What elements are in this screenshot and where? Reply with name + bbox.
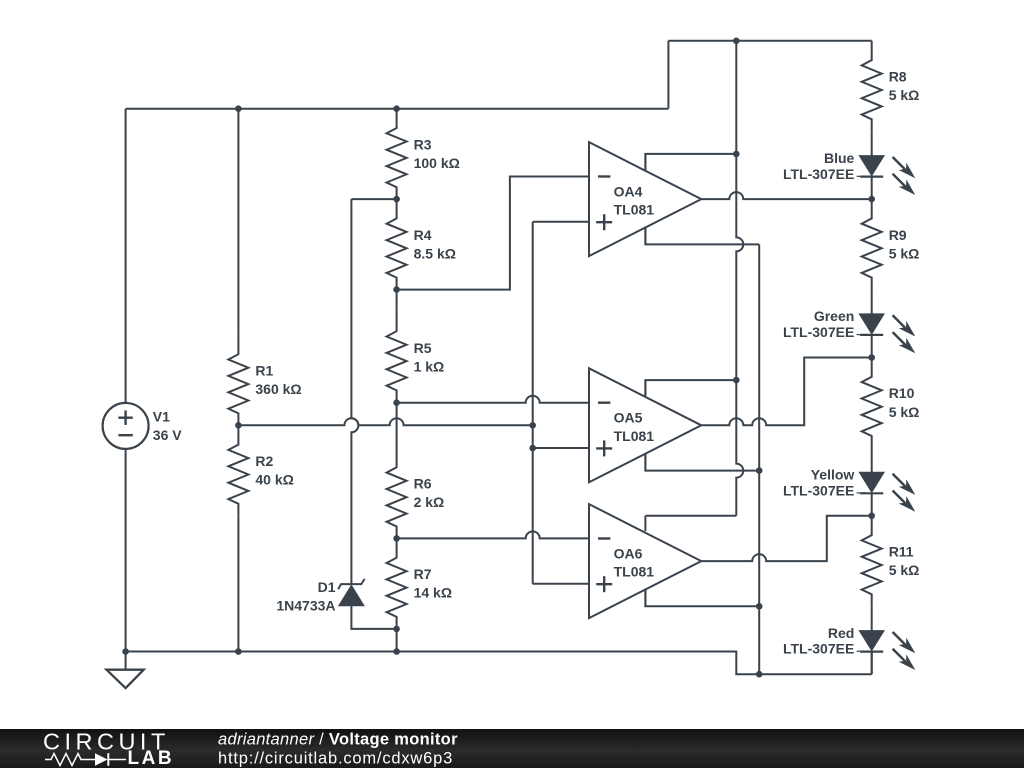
wire OA4 V- pin to negative rail	[645, 227, 759, 244]
node R3-R4 / D1 branch	[393, 196, 400, 203]
svg-text:R2: R2	[255, 453, 273, 469]
wire V+ rail to OA6 V+ pin	[645, 515, 736, 517]
svg-text:R5: R5	[414, 340, 432, 356]
svg-text:5 kΩ: 5 kΩ	[889, 87, 920, 103]
wire top rail to R8	[871, 40, 873, 42]
svg-text:R8: R8	[889, 68, 907, 84]
svg-text:R11: R11	[889, 543, 914, 559]
svg-text:R9: R9	[889, 227, 907, 243]
node R5-R6 / OA5 inv	[393, 399, 400, 406]
svg-text:5 kΩ: 5 kΩ	[889, 246, 920, 262]
wire V1 to ground rail	[125, 449, 127, 652]
svg-text:360 kΩ: 360 kΩ	[255, 381, 301, 397]
svg-text:1 kΩ: 1 kΩ	[414, 359, 445, 375]
op-amp OA6	[644, 516, 646, 531]
svg-text:Red: Red	[828, 625, 854, 641]
CircuitLab logo squiggle	[45, 754, 95, 766]
voltage source V1	[103, 403, 149, 449]
svg-text:V1: V1	[153, 409, 170, 425]
wire R3/R4 node to D1 branch	[351, 198, 396, 200]
resistor R10	[862, 358, 882, 449]
wire D1 anode to R7 bottom	[351, 606, 396, 629]
svg-text:OA5: OA5	[614, 410, 643, 426]
svg-text:LTL-307EE: LTL-307EE	[783, 324, 854, 340]
wire OA4 V+ pin to rail	[645, 154, 736, 171]
svg-text:TL081: TL081	[614, 428, 655, 444]
wire top supply rail	[668, 40, 871, 42]
wire negative supply rail	[758, 244, 760, 674]
LED Red	[871, 606, 873, 630]
wire OA4 non-inverting input	[533, 221, 589, 223]
node OA4 out / blue LED / R9	[868, 196, 875, 203]
svg-text:R7: R7	[414, 566, 432, 582]
svg-text:36 V: 36 V	[153, 427, 182, 443]
LED Yellow	[871, 448, 873, 472]
node OA5 non-inv branch	[529, 445, 536, 452]
wire OA5 V+ pin to rail	[645, 380, 736, 397]
wire reference rail	[532, 222, 534, 584]
svg-text:LTL-307EE: LTL-307EE	[783, 166, 854, 182]
svg-text:LTL-307EE: LTL-307EE	[783, 482, 854, 498]
svg-text:2 kΩ: 2 kΩ	[414, 494, 445, 510]
svg-text:40 kΩ: 40 kΩ	[255, 472, 293, 488]
zener diode D1	[339, 585, 364, 606]
svg-text:5 kΩ: 5 kΩ	[889, 404, 920, 420]
node OA5 V- / rail	[756, 467, 763, 474]
node OA6 V- / rail	[756, 603, 763, 610]
svg-text:TL081: TL081	[614, 564, 655, 580]
svg-text:TL081: TL081	[614, 202, 655, 218]
resistor R6	[387, 448, 407, 539]
wire OA5 V- pin to negative rail	[645, 454, 759, 471]
op-amp OA4	[644, 154, 646, 169]
wire R4/R5 node to OA4 inverting input	[397, 177, 589, 290]
node OA5 out / green LED / R10	[868, 354, 875, 361]
node rail / R3	[393, 105, 400, 112]
svg-text:R6: R6	[414, 476, 432, 492]
node OA4 V+ / rail	[733, 151, 740, 158]
wire OA5 non-inverting input	[533, 447, 589, 449]
node OA5 V+ / rail	[733, 377, 740, 384]
svg-text:R3: R3	[414, 136, 432, 152]
svg-text:R1: R1	[255, 363, 273, 379]
wire R1 top lead from rail	[237, 109, 239, 335]
resistor R7	[387, 538, 407, 629]
svg-text:OA6: OA6	[614, 546, 643, 562]
wire R1-R2 node to reference	[238, 418, 532, 425]
wire R2 bottom to ground rail	[237, 516, 239, 652]
resistor R3	[387, 109, 407, 200]
node R1-R2 / reference	[235, 422, 242, 429]
wire V1 to rail	[125, 109, 127, 403]
node rail / R1	[235, 105, 242, 112]
svg-text:adriantanner / Voltage monitor: adriantanner / Voltage monitor	[218, 731, 458, 749]
LED Green	[871, 290, 873, 314]
node ground / R2	[235, 648, 242, 655]
resistor R1	[228, 335, 248, 426]
resistor R9	[862, 199, 882, 290]
svg-text:Yellow: Yellow	[811, 467, 855, 483]
svg-text:5 kΩ: 5 kΩ	[889, 562, 920, 578]
svg-text:100 kΩ: 100 kΩ	[414, 155, 460, 171]
wire OA6 output to yellow LED node	[701, 516, 871, 561]
node top rail / V+ rail	[733, 38, 740, 45]
node reference join	[529, 422, 536, 429]
wire ground rail	[126, 652, 872, 675]
wire main supply rail from V1	[126, 108, 669, 110]
svg-text:LTL-307EE: LTL-307EE	[783, 641, 854, 657]
node R7 / D1 anode	[393, 626, 400, 633]
wire R4 bottom to R5 top	[396, 290, 398, 312]
op-amp OA5	[644, 380, 646, 395]
resistor R8	[862, 41, 882, 132]
ground	[125, 652, 127, 670]
node OA6 out / yellow LED / R11	[868, 513, 875, 520]
wire R5 bottom to R6 top	[396, 403, 398, 448]
svg-text:Green: Green	[814, 308, 854, 324]
wire V+ supply rail	[736, 41, 743, 516]
svg-text:D1: D1	[318, 579, 336, 595]
wire supply rail riser	[667, 41, 669, 109]
svg-text:14 kΩ: 14 kΩ	[414, 585, 452, 601]
wire D1 branch down	[351, 199, 358, 584]
svg-text:R4: R4	[414, 227, 432, 243]
wire OA6 non-inverting input	[533, 583, 589, 585]
resistor R2	[228, 425, 248, 516]
wire R5/R6 node to OA5 inverting input	[397, 396, 589, 403]
svg-text:LAB: LAB	[128, 748, 175, 768]
wire red LED to bottom rail	[871, 651, 873, 674]
wire OA5 output to green LED node	[701, 358, 871, 426]
svg-text:R10: R10	[889, 385, 915, 401]
wire OA6 V- pin to negative rail	[645, 590, 759, 606]
node ground / V1	[122, 648, 129, 655]
resistor R5	[387, 312, 407, 403]
wire OA4 output to blue LED node	[701, 192, 871, 199]
svg-text:1N4733A: 1N4733A	[276, 598, 335, 614]
svg-text:OA4: OA4	[614, 184, 643, 200]
svg-text:Blue: Blue	[824, 150, 855, 166]
wire R6/R7 node to OA6 inverting input	[397, 531, 589, 538]
wire R7 bottom to ground rail	[396, 629, 398, 652]
svg-text:http://circuitlab.com/cdxw6p3: http://circuitlab.com/cdxw6p3	[218, 750, 453, 768]
resistor R4	[387, 199, 407, 290]
LED Blue	[871, 131, 873, 155]
svg-text:8.5 kΩ: 8.5 kΩ	[414, 246, 456, 262]
node R6-R7 / OA6 inv	[393, 535, 400, 542]
footer bar	[0, 729, 1024, 768]
node V- rail / bottom rail	[756, 671, 763, 678]
node R4-R5 / OA4 inv	[393, 286, 400, 293]
resistor R11	[862, 516, 882, 607]
node ground / R7	[393, 648, 400, 655]
